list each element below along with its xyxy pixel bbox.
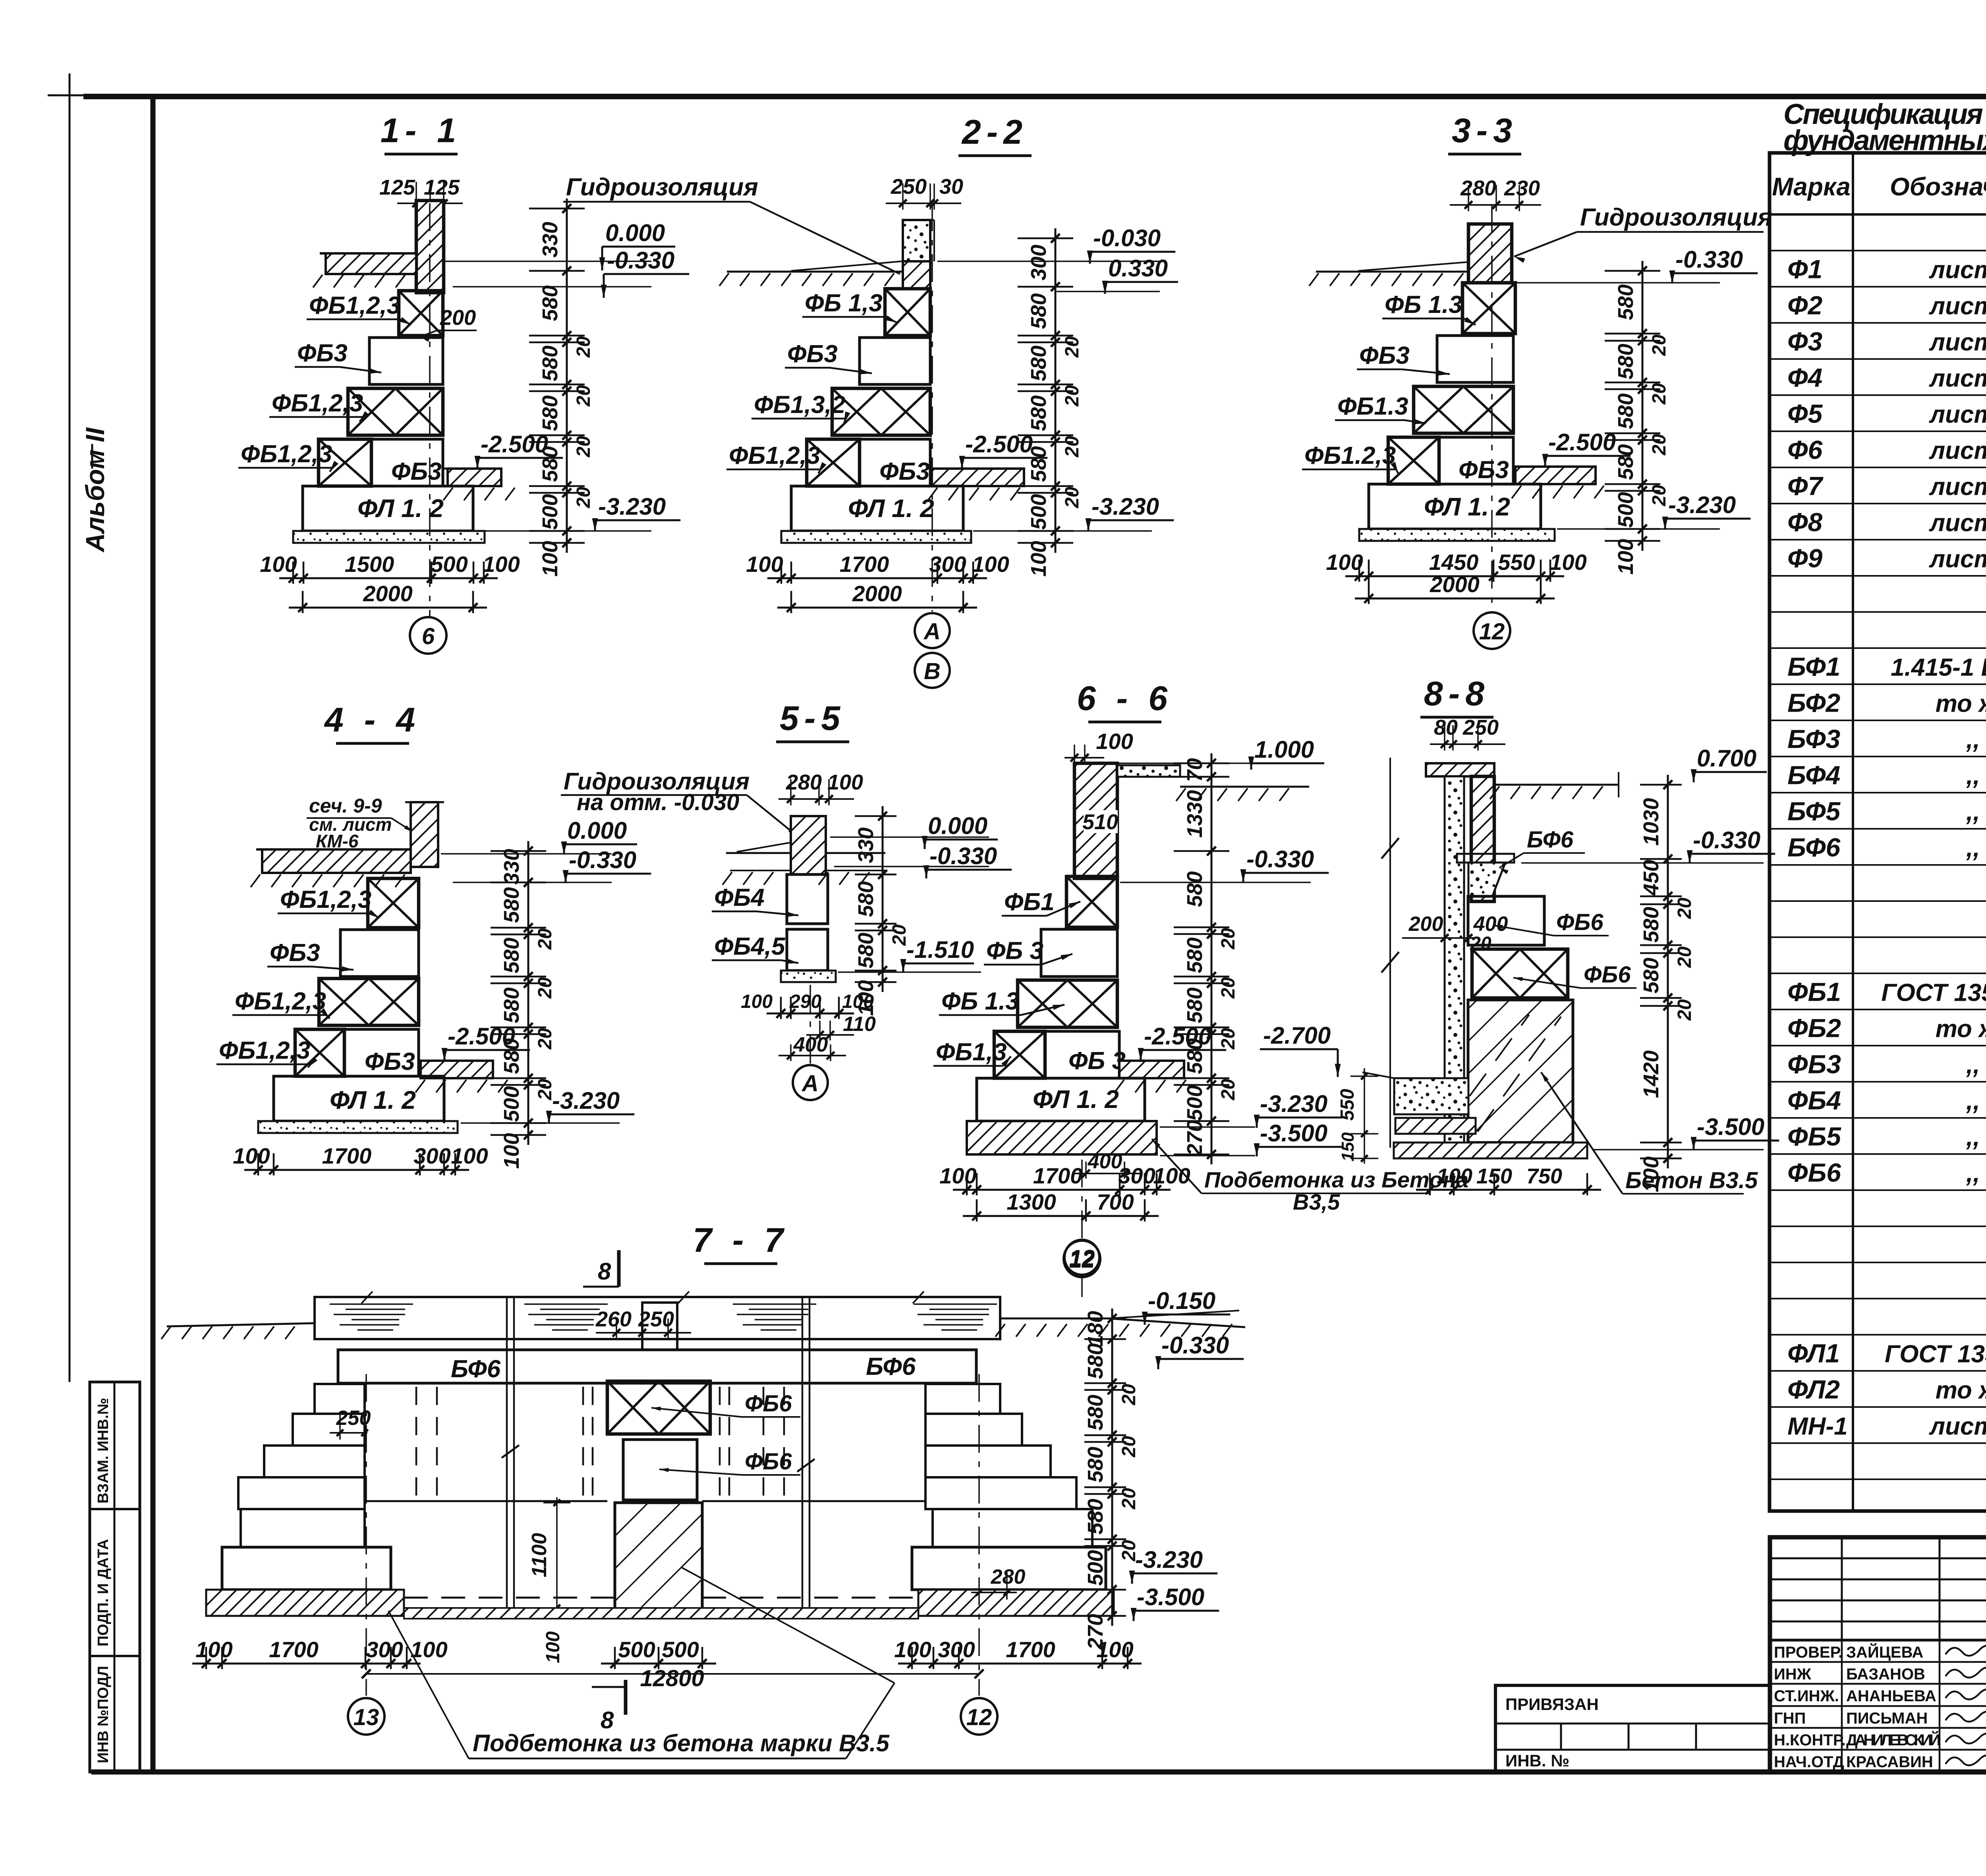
section 2-2 axis line (931, 203, 933, 612)
section 7-7 dim chain right (1111, 1309, 1113, 1626)
svg-text:,,: ,, (1966, 1160, 1980, 1187)
section 7-7 small column (642, 1303, 677, 1350)
svg-text:ФБ4,5: ФБ4,5 (714, 933, 786, 960)
svg-text:550: 550 (1337, 1089, 1358, 1121)
svg-text:ФЛ 1. 2: ФЛ 1. 2 (1033, 1085, 1119, 1114)
section 8-8 level -0.330 (1521, 862, 1764, 864)
svg-text:280: 280 (991, 1565, 1026, 1588)
section 1-1 level -3.230 (485, 530, 651, 532)
section 4-4 block row4 (295, 1029, 344, 1076)
section 7-7 right foundation steps (925, 1384, 1000, 1414)
svg-text:лист 8: лист 8 (1929, 329, 1986, 356)
svg-text:Подбетонка из бетона марки В: Подбетонка из бетона марки В3.5 (473, 1730, 890, 1756)
svg-text:0.330: 0.330 (1108, 255, 1168, 282)
svg-text:8: 8 (598, 1258, 611, 1285)
svg-text:100: 100 (1549, 550, 1586, 575)
svg-text:Ф7: Ф7 (1787, 471, 1824, 501)
svg-text:100: 100 (972, 552, 1009, 577)
svg-text:ФБ3: ФБ3 (879, 458, 930, 485)
svg-text:2-2: 2-2 (961, 113, 1028, 151)
svg-text:ФБ3: ФБ3 (270, 939, 320, 967)
svg-text:330: 330 (538, 222, 562, 257)
svg-text:Гидроизоляция: Гидроизоляция (566, 174, 758, 201)
svg-text:20: 20 (1649, 434, 1670, 456)
section 7-7 hidden dashes horizontal (404, 1597, 615, 1599)
section 6-6 axis circle 12 (1081, 1160, 1083, 1239)
svg-text:лист 8: лист 8 (1929, 365, 1986, 392)
svg-text:500: 500 (431, 552, 468, 577)
svg-text:лист 7: лист 7 (1929, 293, 1986, 320)
svg-text:сеч. 9-9: сеч. 9-9 (309, 795, 382, 817)
section 7-7 beam band BF6 (338, 1350, 976, 1383)
section 6-6 concrete pad (967, 1121, 1157, 1154)
svg-text:20: 20 (1218, 1028, 1239, 1050)
svg-text:580: 580 (1084, 1447, 1107, 1482)
svg-text:БФ6: БФ6 (1527, 827, 1574, 853)
svg-text:20: 20 (573, 385, 594, 407)
svg-text:Бетон В3.5: Бетон В3.5 (1625, 1168, 1758, 1193)
svg-text:20: 20 (1218, 928, 1239, 950)
svg-text:,,: ,, (1966, 1124, 1980, 1151)
section 5-5 block FB4 (787, 874, 828, 924)
section 2-2 level 0.330 (1057, 291, 1160, 292)
svg-text:,,: ,, (1966, 799, 1980, 826)
svg-text:НАЧ.ОТД: НАЧ.ОТД (1774, 1753, 1844, 1771)
svg-text:Ф3: Ф3 (1787, 327, 1822, 356)
left margin stamp boxes (90, 1382, 140, 1772)
svg-text:-3.230: -3.230 (1135, 1546, 1203, 1573)
section 3-3 block FB13 row3 (1414, 386, 1513, 433)
section 5-5 level -0.330 (834, 866, 989, 867)
section 4-4 level 0.000 (441, 853, 612, 855)
svg-text:300: 300 (938, 1637, 975, 1662)
svg-text:500: 500 (1027, 494, 1051, 530)
svg-text:БФ1: БФ1 (1787, 652, 1840, 681)
svg-text:ФБ3: ФБ3 (391, 458, 442, 485)
section 3-3 axis line (1491, 205, 1493, 612)
svg-text:200: 200 (440, 306, 476, 330)
svg-text:580: 580 (1027, 446, 1051, 482)
section 3-3 block row4 (1388, 437, 1439, 484)
svg-text:А: А (923, 619, 941, 645)
svg-text:580: 580 (1614, 284, 1638, 320)
section 4-4 ground hatch (251, 874, 260, 887)
section 8-8 base strip (1394, 1143, 1587, 1158)
svg-text:270: 270 (1183, 1120, 1207, 1156)
section 1-1 level line -0.330 (453, 286, 651, 288)
section 1-1 block FB3 row2 (369, 338, 443, 384)
svg-text:80: 80 (1434, 716, 1458, 739)
svg-text:200: 200 (1408, 913, 1443, 936)
section 2-2 axis circle A (915, 613, 950, 648)
svg-text:ФБ1: ФБ1 (1787, 977, 1841, 1007)
svg-text:БФ4: БФ4 (1787, 760, 1840, 790)
svg-text:20: 20 (535, 1079, 556, 1101)
table rows foundation beams (1770, 647, 1986, 649)
svg-text:ФБ1,2,3: ФБ1,2,3 (309, 292, 400, 319)
svg-text:-0.330: -0.330 (1246, 846, 1314, 872)
section 7-7 left slab (222, 1547, 391, 1590)
table row МН-1 труба (1770, 1442, 1986, 1444)
elevation -3.500 (6-6) (1160, 1155, 1255, 1156)
svg-text:ФЛ 1. 2: ФЛ 1. 2 (330, 1086, 416, 1114)
section 4-4 dim chain (527, 841, 529, 1145)
title block upper-left small rows (1770, 1558, 1986, 1559)
svg-text:БФ6: БФ6 (866, 1353, 916, 1380)
svg-text:13: 13 (354, 1704, 379, 1730)
section 7-7 water surface marks (330, 1303, 413, 1305)
svg-text:БФ6: БФ6 (1787, 833, 1841, 862)
section 1-1 block FB123 row3 (348, 388, 443, 435)
svg-text:0.000: 0.000 (605, 220, 665, 246)
svg-text:ФЛ 1. 2: ФЛ 1. 2 (357, 494, 444, 523)
svg-text:8-8: 8-8 (1424, 675, 1490, 713)
section 7-7 bottom dims центр 500 500 (601, 1663, 716, 1665)
svg-text:12: 12 (1479, 619, 1505, 645)
section 2-2 block FB3 row2 (860, 338, 930, 384)
svg-text:БФ2: БФ2 (1787, 688, 1841, 718)
section 7-7 ground right (1000, 1318, 1108, 1320)
svg-text:150: 150 (1338, 1132, 1358, 1162)
section 4-4 steel column (411, 802, 438, 867)
svg-text:лист 9: лист 9 (1929, 473, 1986, 501)
svg-text:ФБ 1.3: ФБ 1.3 (941, 988, 1019, 1015)
svg-text:20: 20 (573, 436, 594, 458)
svg-text:20: 20 (1119, 1384, 1140, 1406)
section 6-6 ground right (1180, 786, 1309, 788)
svg-text:250: 250 (891, 175, 927, 199)
section 8-8 dim 200 (1402, 937, 1474, 939)
section 1-1 axis circle 6 (410, 617, 446, 654)
svg-text:ФБ 3: ФБ 3 (986, 937, 1043, 965)
svg-text:450: 450 (1639, 860, 1663, 896)
svg-text:2000: 2000 (363, 581, 413, 606)
section 1-1 base strip (293, 531, 485, 543)
svg-text:1700: 1700 (1006, 1637, 1055, 1662)
section 2-2 ground line and slope (727, 271, 903, 273)
svg-text:,,: ,, (1966, 762, 1980, 790)
svg-text:0.000: 0.000 (928, 813, 987, 839)
section 2-2 level -0.030 (937, 261, 1160, 262)
section 1-1 ground hatch (313, 275, 323, 288)
svg-text:лист 9: лист 9 (1929, 546, 1986, 573)
svg-text:12: 12 (966, 1704, 992, 1730)
svg-text:580: 580 (538, 345, 562, 381)
svg-text:300: 300 (413, 1143, 450, 1168)
section 4-4 level -3.230 (461, 1122, 620, 1124)
svg-text:100: 100 (233, 1143, 270, 1168)
svg-text:,,: ,, (1966, 726, 1980, 754)
svg-text:ЗАЙЦЕВА: ЗАЙЦЕВА (1846, 1643, 1923, 1661)
svg-text:100: 100 (1326, 550, 1363, 575)
section 7-7 bottom dims left (192, 1663, 421, 1665)
svg-text:АНАНЬЕВА: АНАНЬЕВА (1846, 1687, 1936, 1705)
section 8-8 left small dims 550 150 (1364, 1068, 1365, 1164)
svg-text:500: 500 (500, 1086, 524, 1122)
section 3-3 block FB13 row1 (1462, 283, 1515, 334)
svg-text:Н.КОНТР.: Н.КОНТР. (1774, 1731, 1846, 1749)
svg-text:580: 580 (1614, 393, 1638, 429)
section 5-5 level -1.510 (838, 971, 981, 973)
svg-text:330: 330 (854, 827, 878, 863)
svg-text:580: 580 (1027, 293, 1051, 329)
section 1-1 ledge at -2.500 (448, 469, 501, 486)
svg-text:580: 580 (854, 932, 878, 968)
svg-text:ГНП: ГНП (1774, 1710, 1806, 1727)
svg-text:-2.700: -2.700 (1263, 1022, 1331, 1049)
section 8-8 right dim chain (1667, 775, 1669, 1168)
svg-text:1100: 1100 (528, 1533, 551, 1577)
svg-text:лист 7: лист 7 (1929, 257, 1986, 284)
section 2-2 axis circle B (915, 653, 950, 688)
svg-text:580: 580 (854, 881, 878, 917)
svg-text:БФ3: БФ3 (1787, 724, 1840, 754)
section 7-7 central thin strip (404, 1608, 918, 1619)
svg-text:Ф6: Ф6 (1787, 435, 1823, 465)
svg-text:то же: то же (1936, 690, 1986, 718)
title block frame (1770, 1537, 1986, 1772)
svg-text:Ф5: Ф5 (1787, 399, 1823, 428)
section 4-4 base strip (258, 1121, 458, 1133)
svg-text:1700: 1700 (1033, 1163, 1083, 1188)
section 5-5 bottom dims (767, 1013, 854, 1015)
svg-text:125: 125 (424, 176, 460, 199)
svg-text:12800: 12800 (640, 1666, 704, 1691)
section 5-5 axis circle A (809, 985, 811, 1064)
svg-text:ФБ1.3: ФБ1.3 (1337, 393, 1408, 420)
svg-text:20: 20 (1674, 999, 1695, 1021)
section 1-1 slab FL1,2 (303, 486, 473, 531)
svg-text:700: 700 (1097, 1189, 1134, 1214)
svg-text:110: 110 (843, 1013, 876, 1036)
section 8-8 level -3.500 (1593, 1149, 1764, 1150)
svg-text:Ф9: Ф9 (1787, 544, 1823, 573)
svg-text:100: 100 (1437, 1164, 1472, 1188)
svg-text:,,: ,, (1966, 1088, 1980, 1115)
svg-text:20: 20 (1218, 1079, 1239, 1101)
section 4-4 block FB123 row3 (319, 979, 419, 1025)
svg-text:250: 250 (1462, 716, 1499, 739)
svg-text:580: 580 (500, 938, 524, 973)
section 4-4 block FB3 row2 (340, 930, 419, 977)
svg-text:7 - 7: 7 - 7 (693, 1221, 789, 1259)
section 8-8 ground right (1494, 784, 1619, 786)
svg-text:580: 580 (1084, 1343, 1107, 1379)
svg-text:ФБ2: ФБ2 (1787, 1013, 1841, 1043)
svg-text:20: 20 (535, 928, 556, 950)
section 7-7 axes (365, 1374, 367, 1696)
svg-text:ФБ1,2,3: ФБ1,2,3 (219, 1037, 310, 1064)
svg-text:12: 12 (1069, 1245, 1095, 1271)
svg-text:А: А (801, 1071, 819, 1096)
section 4-4 level -0.330 (453, 882, 612, 883)
svg-text:-3.230: -3.230 (1092, 493, 1159, 520)
table row Расход бетона (1770, 1478, 1986, 1480)
spec table frame (1770, 153, 1986, 1511)
sheet outer trim line left (69, 95, 71, 1382)
svg-text:ФБ 3: ФБ 3 (1068, 1047, 1126, 1075)
svg-text:ФБ6: ФБ6 (1584, 962, 1631, 988)
section 1-1 level line 0.000 (444, 261, 651, 262)
svg-text:500: 500 (1614, 492, 1638, 528)
svg-text:2000: 2000 (852, 581, 902, 606)
svg-text:ДАНИЛЕВСКИЙ: ДАНИЛЕВСКИЙ (1846, 1731, 1941, 1749)
svg-text:лист 9: лист 9 (1929, 437, 1986, 465)
svg-text:ФБ3: ФБ3 (365, 1048, 415, 1075)
svg-text:1450: 1450 (1429, 550, 1479, 575)
title block lower band (1770, 1639, 1986, 1642)
svg-text:20: 20 (1119, 1488, 1140, 1510)
svg-text:580: 580 (1183, 871, 1207, 907)
svg-text:580: 580 (1183, 937, 1207, 973)
svg-text:510: 510 (1082, 810, 1118, 834)
svg-text:ФЛ 1. 2: ФЛ 1. 2 (1424, 492, 1510, 521)
svg-text:20: 20 (573, 336, 594, 358)
svg-text:500: 500 (1183, 1085, 1207, 1121)
svg-text:лист 9: лист 9 (1929, 510, 1986, 537)
svg-text:ФБ4: ФБ4 (714, 884, 765, 911)
svg-text:580: 580 (500, 1038, 524, 1074)
svg-text:500: 500 (538, 494, 562, 530)
svg-text:580: 580 (1084, 1499, 1107, 1534)
svg-text:В3,5: В3,5 (1293, 1189, 1340, 1214)
svg-text:20: 20 (1062, 336, 1083, 358)
svg-text:580: 580 (500, 987, 524, 1023)
svg-text:1420: 1420 (1639, 1050, 1663, 1098)
svg-text:ФБ6: ФБ6 (745, 1391, 792, 1417)
section 4-4 block FB123 row1 (368, 878, 419, 928)
svg-text:300: 300 (929, 552, 966, 577)
section 7-7 central pedestal (615, 1503, 702, 1613)
section 6-6 block FB13 row3 (1018, 980, 1117, 1027)
svg-text:ФЛ2: ФЛ2 (1787, 1375, 1840, 1404)
section 3-3 ledge at -2.500 (1515, 467, 1596, 484)
section 7-7 left wall face (363, 1384, 366, 1501)
svg-text:-3.230: -3.230 (552, 1087, 620, 1114)
section 7-7 bottom dims right (898, 1663, 1142, 1665)
svg-text:Ф1: Ф1 (1787, 255, 1822, 284)
svg-text:ФБ3: ФБ3 (1459, 456, 1509, 484)
svg-text:550: 550 (1498, 550, 1535, 575)
svg-text:580: 580 (538, 285, 562, 321)
section 8-8 retaining wall masonry layer (1471, 776, 1494, 901)
svg-text:ФБ1,2,3: ФБ1,2,3 (280, 886, 371, 913)
svg-text:ФБ3: ФБ3 (297, 340, 348, 367)
svg-text:,,: ,, (1966, 1052, 1980, 1079)
svg-text:280: 280 (1460, 176, 1496, 200)
svg-text:100: 100 (1096, 1637, 1133, 1662)
svg-text:6 - 6: 6 - 6 (1077, 679, 1173, 718)
section 7-7 left base strip (206, 1590, 404, 1616)
section 7-7 axis circle 13 (348, 1698, 384, 1735)
svg-text:30: 30 (939, 175, 963, 199)
section 5-5 level 0.000 (830, 836, 989, 838)
svg-text:ФБ 1.3: ФБ 1.3 (1385, 291, 1462, 318)
section 6-6 dim chain (1211, 753, 1213, 1164)
svg-text:ИНВ №ПОДЛ: ИНВ №ПОДЛ (95, 1666, 112, 1763)
section 2-2 block row4 (807, 439, 860, 486)
svg-text:20: 20 (1674, 946, 1695, 968)
svg-text:Подбетонка из Бетона: Подбетонка из Бетона (1204, 1167, 1468, 1192)
section 1-1 axis line (429, 203, 431, 616)
svg-text:580: 580 (1084, 1395, 1107, 1430)
svg-text:ВЗАМ. ИНВ.№: ВЗАМ. ИНВ.№ (95, 1398, 112, 1504)
svg-text:-3.230: -3.230 (1260, 1090, 1327, 1117)
section 5-5 ground lines (726, 852, 791, 854)
svg-text:100: 100 (1096, 729, 1133, 754)
svg-text:БАЗАНОВ: БАЗАНОВ (1846, 1666, 1925, 1683)
svg-text:БФ6: БФ6 (451, 1355, 501, 1383)
section 7-7 right base strip (918, 1590, 1114, 1616)
svg-text:3-3: 3-3 (1452, 112, 1518, 150)
section 3-3 axis circle 12 (1474, 612, 1510, 649)
section 6-6 slab FL1,2 (977, 1078, 1145, 1121)
section 7-7 basin break marks (361, 1291, 373, 1303)
svg-text:100: 100 (483, 552, 520, 577)
section 6-6 dim 400 (1085, 1162, 1087, 1179)
section 3-3 ground line (1316, 271, 1468, 273)
svg-text:ФБ1,2,3: ФБ1,2,3 (235, 988, 326, 1015)
svg-text:Ф8: Ф8 (1787, 508, 1823, 537)
section 2-2 wall masonry (903, 261, 930, 289)
section 8-8 bottom dims (1416, 1189, 1601, 1191)
svg-text:ИНВ. №: ИНВ. № (1505, 1751, 1569, 1770)
svg-text:400: 400 (1088, 1150, 1122, 1173)
section 7-7 water basin (315, 1297, 1000, 1339)
section 2-2 wall concrete panel (903, 220, 930, 261)
table rows basement wall blocks (1770, 973, 1986, 974)
svg-text:20: 20 (1218, 977, 1239, 999)
svg-text:БФ5: БФ5 (1787, 797, 1841, 826)
svg-text:290: 290 (789, 991, 821, 1012)
elevation -3.230 (6-6) (1160, 1126, 1255, 1128)
sheet frame border (83, 94, 1986, 99)
svg-text:ФБ1.2,3: ФБ1.2,3 (1304, 442, 1396, 469)
section 8-8 block FB6 plain (1468, 896, 1544, 945)
section 7-7 right wall face (924, 1384, 927, 1501)
svg-text:ГОСТ 13580-85: ГОСТ 13580-85 (1885, 1341, 1986, 1368)
svg-text:500: 500 (1084, 1550, 1107, 1586)
section 7-7 central crossed block (607, 1381, 710, 1434)
svg-text:1700: 1700 (840, 552, 889, 577)
svg-text:1300: 1300 (1007, 1189, 1056, 1214)
svg-text:20: 20 (535, 1028, 556, 1050)
section 8-8 block FB6 crossed (1472, 949, 1568, 998)
section 8-8 backfill band (1394, 1078, 1468, 1114)
svg-text:70: 70 (1183, 758, 1207, 782)
section 6-6 block FB3 row2 (1041, 929, 1117, 977)
section 4-4 bottom dims (244, 1169, 469, 1171)
section 6-6 bottom dims (953, 1189, 1171, 1191)
svg-text:1.415-1 Вып.1: 1.415-1 Вып.1 (1891, 654, 1986, 681)
svg-text:580: 580 (500, 887, 524, 923)
svg-text:300: 300 (1027, 245, 1051, 280)
svg-text:300: 300 (366, 1637, 403, 1662)
svg-text:260: 260 (595, 1307, 632, 1331)
svg-text:ФБ3: ФБ3 (787, 340, 838, 368)
svg-text:ФБ3: ФБ3 (1359, 342, 1410, 369)
svg-text:20: 20 (1649, 334, 1670, 356)
svg-text:1- 1: 1- 1 (381, 112, 462, 150)
section 7-7 dim 12800 (366, 1673, 979, 1675)
svg-text:100: 100 (451, 1143, 488, 1168)
section 6-6 block row4 (994, 1031, 1045, 1078)
table rows foundation slabs (1770, 1334, 1986, 1336)
svg-text:-0.330: -0.330 (1675, 246, 1743, 273)
svg-text:ФБ 1,3: ФБ 1,3 (805, 290, 883, 317)
section 8-8 corbel seat (1457, 854, 1514, 863)
svg-text:Ф2: Ф2 (1787, 291, 1823, 320)
